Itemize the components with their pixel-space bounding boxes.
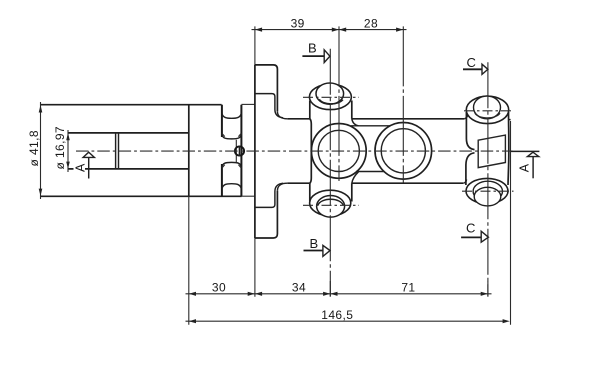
dimension dia 41,8	[27, 102, 42, 199]
bottom dimension line 146,5	[186, 308, 510, 324]
main body top and bottom lines	[287, 115, 468, 184]
right end extension line	[510, 121, 512, 325]
centerline horizontal main	[76, 150, 513, 152]
crosshair target symbol	[235, 140, 244, 163]
block left extension line	[188, 196, 190, 324]
svg-text:B: B	[308, 40, 317, 55]
dimension dia 16,97	[53, 126, 70, 172]
svg-text:C: C	[467, 55, 477, 70]
svg-text:ø 41,8: ø 41,8	[27, 130, 41, 166]
svg-text:39: 39	[291, 16, 305, 30]
svg-text:A: A	[73, 163, 87, 172]
svg-text:71: 71	[401, 281, 415, 295]
svg-text:C: C	[466, 220, 476, 235]
web lines between circles	[351, 119, 390, 183]
bottom port boss	[310, 183, 352, 217]
section line C vertical	[487, 62, 489, 296]
section B marker top	[302, 40, 330, 62]
section A marker left	[73, 152, 94, 178]
solid tails of section lines at dimension crossings	[329, 281, 331, 297]
barrel cylinder outline	[41, 105, 242, 197]
main bore circle 2	[375, 123, 432, 180]
front hub boss on flange	[255, 94, 283, 208]
svg-text:28: 28	[364, 16, 378, 30]
flange left edge extension line	[254, 26, 256, 296]
circle 2 center extension	[402, 26, 404, 182]
block right edge	[240, 105, 242, 197]
svg-text:B: B	[310, 236, 319, 251]
bottom dimension line 30 / 34 / 71	[186, 280, 492, 296]
block left edge	[188, 105, 190, 197]
flange plate	[255, 65, 287, 238]
top slot in block	[222, 105, 241, 139]
right outlet ports assembly	[466, 96, 511, 206]
svg-text:30: 30	[212, 280, 226, 294]
section C marker top	[463, 55, 488, 74]
section line B vertical	[329, 49, 331, 297]
boss pad edge left of circle 1	[310, 119, 311, 183]
top dimension line 39 / 28	[252, 16, 407, 31]
bore 16,97 lines	[68, 133, 189, 169]
svg-text:A: A	[518, 163, 532, 172]
section B marker bottom	[304, 236, 331, 257]
main bore circle 1	[311, 123, 366, 178]
section C marker bottom	[461, 220, 488, 242]
section A marker right	[510, 151, 539, 178]
bottom slot in block	[222, 162, 241, 196]
neck between block and flange	[241, 104, 255, 196]
svg-text:ø 16,97: ø 16,97	[53, 126, 67, 170]
svg-text:146,5: 146,5	[321, 308, 353, 322]
port centerline ticks	[303, 97, 514, 205]
circle 1 center extension	[338, 26, 340, 181]
top reservoir port boss	[309, 83, 351, 119]
svg-text:34: 34	[292, 280, 306, 294]
